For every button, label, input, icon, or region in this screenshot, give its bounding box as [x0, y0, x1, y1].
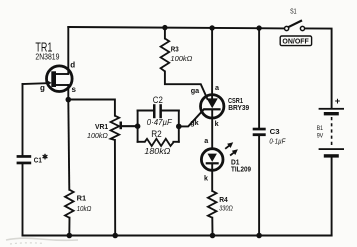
resistor R2 [144, 139, 173, 146]
wire R3 bottom to CSR1 anode gate ga [165, 71, 208, 99]
wire VR1 wiper to node A [123, 125, 138, 127]
battery dashed internal link [331, 117, 333, 147]
ON/OFF box [280, 36, 311, 46]
wire TR1 drain to top rail [67, 27, 69, 74]
svg-text:k: k [204, 174, 208, 183]
wire R2 bottom branch left [138, 141, 145, 143]
wire TR1 gate to left column [23, 82, 47, 85]
svg-text:R2: R2 [151, 129, 162, 139]
wire D1 cathode to R4 [211, 164, 213, 191]
svg-text:ON/OFF: ON/OFF [282, 39, 309, 46]
LED D1 (TIL209) [201, 149, 223, 171]
svg-text:180kΩ: 180kΩ [144, 147, 170, 156]
switch S1 [285, 20, 305, 30]
wire bottom ground rail [23, 235, 332, 237]
svg-text:k: k [215, 119, 219, 128]
svg-text:g: g [40, 84, 45, 93]
svg-text:D1: D1 [231, 159, 240, 166]
wire TR1 source down to node [67, 85, 69, 100]
wire switch to battery top [305, 28, 332, 108]
wire C2 top branch left [138, 110, 153, 112]
thyristor CSR1 (BRY39) [201, 95, 224, 118]
wire C2 top branch right [162, 110, 179, 112]
wire R2 bottom branch right [173, 141, 178, 143]
svg-text:gk: gk [190, 118, 198, 127]
svg-text:d: d [70, 60, 75, 69]
capacitor C1 [17, 155, 32, 164]
wire left column lower (C1 to ground rail) [22, 164, 24, 235]
svg-text:C2: C2 [153, 95, 163, 105]
svg-text:C3: C3 [270, 127, 280, 136]
svg-text:+: + [335, 95, 341, 106]
capacitor C3 [253, 128, 266, 136]
svg-text:100kΩ: 100kΩ [170, 54, 192, 63]
svg-text:S1: S1 [290, 6, 297, 15]
resistor R4 [208, 191, 217, 218]
node R4/ground [210, 233, 216, 239]
svg-text:0·47µF: 0·47µF [147, 118, 173, 127]
wire node B to CSR1 cathode gate gk [179, 109, 204, 126]
wire CSR1 anode to top rail [211, 28, 213, 99]
svg-text:B1: B1 [317, 125, 323, 132]
node A (VR1 wiper / C2R2 left) [135, 123, 141, 129]
faint scan smudge bottom-left [6, 238, 78, 244]
asterisk mark [43, 154, 48, 160]
battery B1 9V [319, 108, 344, 158]
svg-text:ga: ga [191, 86, 200, 95]
capacitor C2 [153, 104, 162, 118]
svg-text:330Ω: 330Ω [219, 203, 233, 212]
svg-text:BRY39: BRY39 [228, 105, 249, 112]
wire VR1 bottom to ground rail [114, 140, 116, 236]
LED arrow 2 [230, 149, 238, 155]
node B (C2R2 right / gk) [176, 124, 182, 130]
wire R3 top to rail [164, 28, 166, 39]
wire C3 top to rail [258, 28, 260, 128]
svg-text:R3: R3 [171, 45, 179, 54]
wire source node to VR1 top [68, 100, 115, 116]
wire R1 bottom to ground rail [68, 218, 70, 236]
svg-text:100kΩ: 100kΩ [87, 131, 108, 140]
svg-text:9V: 9V [317, 133, 324, 140]
node R1/ground [67, 233, 73, 239]
wire top supply rail [68, 27, 284, 28]
node CSR1 anode/top rail [209, 25, 214, 30]
svg-text:s: s [72, 85, 77, 94]
node R3/top rail [162, 25, 167, 30]
wire left column upper (gate to C1) [22, 84, 24, 155]
wire C3 bottom to ground rail [258, 136, 260, 235]
node C3/top rail [256, 25, 261, 30]
transistor TR1 (JFET 2N3819) [47, 66, 73, 92]
wire source node to R1 [68, 100, 69, 190]
svg-text:10kΩ: 10kΩ [77, 204, 92, 213]
LED arrow 1 [225, 142, 233, 149]
node TR1 source [66, 97, 72, 103]
resistor R1 [65, 190, 74, 218]
resistor R3 [161, 39, 170, 72]
potentiometer VR1 [111, 116, 138, 140]
svg-text:0·1µF: 0·1µF [269, 137, 285, 146]
node C3/ground [256, 233, 262, 239]
wire C2/R2 loop right side [178, 111, 180, 142]
wire R4 bottom to ground rail [211, 218, 213, 236]
wire battery bottom to ground rail [331, 158, 333, 236]
wire C2/R2 loop left side [137, 111, 139, 142]
wire CSR1 cathode to D1 anode [211, 110, 213, 148]
svg-text:TIL209: TIL209 [231, 167, 251, 174]
svg-text:2N3819: 2N3819 [35, 52, 59, 62]
svg-text:R1: R1 [77, 194, 87, 203]
node VR1/ground [112, 233, 118, 239]
svg-text:C1: C1 [34, 155, 42, 164]
